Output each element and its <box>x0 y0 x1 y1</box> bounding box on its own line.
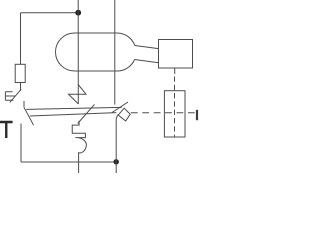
linkage bar lower <box>30 113 117 116</box>
wire pole2 conductor upper <box>114 0 116 105</box>
wire bottom test return horizontal <box>21 161 116 163</box>
wire test return vertical <box>20 124 22 163</box>
wire top horizontal L feed <box>21 12 79 14</box>
toroid sensing coil <box>56 33 135 71</box>
switch T blade <box>10 89 21 102</box>
switch pole2 blade <box>112 102 128 113</box>
wire coil link upper <box>135 46 159 49</box>
wire test lower terminal <box>23 101 25 107</box>
thermal magnetic release meander <box>72 121 86 173</box>
wire trip coil stub <box>174 68 176 74</box>
handle end bar <box>196 110 198 120</box>
linkage dashed vertical <box>174 77 176 138</box>
wire coil link lower <box>135 60 159 63</box>
wire pole2 conductor lower <box>116 115 117 173</box>
resistor R test <box>15 64 25 82</box>
push-button actuator fork <box>5 92 15 100</box>
switch pole1 blade <box>78 104 95 123</box>
linkage left diagonal <box>24 107 34 125</box>
relay release box <box>164 91 185 137</box>
trip coil K <box>159 40 193 69</box>
node junction dot bottom <box>114 159 119 164</box>
wire left vertical to test resistor <box>20 13 22 65</box>
wire pole1 conductor <box>77 0 79 104</box>
flash trip symbol <box>69 85 87 105</box>
linkage bar upper <box>26 107 122 109</box>
latch square <box>118 108 130 121</box>
label T <box>0 121 13 138</box>
wire resistor to test contact <box>20 83 22 91</box>
node junction dot top <box>75 10 81 16</box>
linkage dashed horizontal <box>131 112 195 114</box>
